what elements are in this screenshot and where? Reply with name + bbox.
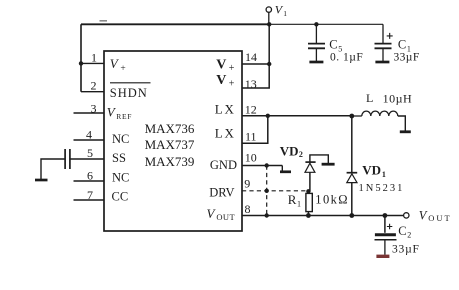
label V+ pin 1 bbox=[110, 56, 126, 74]
diode VD1 zener 1N5231 bbox=[347, 116, 358, 216]
wire pin 7 stub bbox=[74, 199, 105, 201]
ground for soft-start capacitor bbox=[35, 179, 48, 182]
wire pin 13 up to pin 14 bbox=[242, 64, 269, 88]
label NC pin 6 bbox=[112, 171, 129, 185]
svg-text:0. 1µF: 0. 1µF bbox=[330, 52, 363, 64]
svg-text:5: 5 bbox=[87, 146, 93, 160]
svg-text:VD: VD bbox=[362, 162, 381, 177]
svg-text:10: 10 bbox=[245, 150, 257, 164]
svg-text:1: 1 bbox=[297, 200, 301, 209]
svg-text:SS: SS bbox=[112, 151, 126, 165]
label GND pin 10 bbox=[210, 158, 237, 172]
label VOUT terminal bbox=[419, 209, 452, 224]
label R1 bbox=[288, 192, 301, 208]
svg-text:9: 9 bbox=[244, 176, 250, 190]
label VREF bbox=[107, 105, 132, 122]
wire pin 4 stub bbox=[74, 139, 105, 141]
wire pin 14 to V+ bus bbox=[242, 24, 271, 66]
svg-text:33µF: 33µF bbox=[392, 244, 420, 256]
ground for C2 bbox=[376, 255, 389, 258]
label pin 3 bbox=[91, 102, 97, 116]
label pin 13 bbox=[245, 77, 257, 91]
svg-text:11: 11 bbox=[245, 130, 257, 144]
wire pin 9 DRV dashed to R1 bbox=[242, 189, 311, 193]
wire pin 11 up to pin 12 bbox=[242, 116, 268, 144]
svg-text:1: 1 bbox=[283, 9, 287, 18]
svg-text:10kΩ: 10kΩ bbox=[315, 192, 349, 206]
label 1N5231 bbox=[359, 183, 405, 194]
svg-text:1: 1 bbox=[382, 170, 386, 179]
label C5 bbox=[329, 38, 342, 54]
label SS pin 5 bbox=[112, 151, 126, 165]
svg-text:NC: NC bbox=[112, 132, 129, 146]
op-amp U1 MAX736/737/739 IC body bbox=[104, 51, 242, 231]
svg-text:OUT: OUT bbox=[428, 213, 451, 223]
label pin 2 bbox=[91, 78, 97, 92]
wire pin 2 stub bbox=[81, 91, 104, 93]
svg-text:+: + bbox=[229, 63, 235, 74]
svg-text:6: 6 bbox=[87, 169, 93, 183]
label NC pin 4 bbox=[112, 132, 129, 146]
svg-text:8: 8 bbox=[245, 202, 251, 216]
svg-text:2: 2 bbox=[91, 78, 97, 92]
svg-text:10µH: 10µH bbox=[383, 92, 413, 106]
label 0.1uF bbox=[330, 52, 363, 64]
wire pin 12 LX to inductor node bbox=[242, 114, 354, 119]
svg-text:OUT: OUT bbox=[216, 212, 235, 222]
label pin 8 bbox=[245, 202, 251, 216]
wire top bus right segment bbox=[269, 23, 383, 25]
resistor R1 bbox=[306, 191, 312, 215]
svg-text:2: 2 bbox=[299, 150, 303, 159]
label C1 bbox=[398, 38, 411, 54]
label VOUT pin 8 bbox=[207, 206, 236, 222]
capacitor C4 soft-start on pin 5 bbox=[41, 149, 70, 179]
inductor L 10uH bbox=[352, 111, 406, 131]
svg-text:3: 3 bbox=[91, 102, 97, 116]
ground for C5 bbox=[309, 61, 323, 64]
svg-text:DRV: DRV bbox=[209, 186, 234, 200]
svg-text:NC: NC bbox=[112, 171, 129, 185]
wire pin 10 GND bbox=[242, 163, 282, 170]
label VD2 bbox=[280, 143, 303, 159]
ground for inductor bbox=[400, 130, 411, 133]
svg-text:MAX739: MAX739 bbox=[145, 154, 195, 169]
label C2 bbox=[398, 224, 411, 240]
label 33uF C2 bbox=[392, 244, 420, 256]
wire left vertical to pins 1,2 bbox=[80, 24, 82, 91]
label LX pin 12 bbox=[215, 102, 236, 117]
svg-text:V: V bbox=[216, 58, 226, 73]
wire pin 1 stub bbox=[79, 61, 104, 65]
svg-text:REF: REF bbox=[116, 112, 132, 121]
label 10uH bbox=[383, 92, 413, 106]
svg-text:1: 1 bbox=[91, 50, 97, 64]
svg-text:14: 14 bbox=[245, 50, 257, 64]
diode VD2 catch diode bbox=[305, 155, 328, 191]
svg-text:L: L bbox=[366, 91, 373, 105]
svg-text:2: 2 bbox=[407, 231, 411, 240]
svg-text:R: R bbox=[288, 192, 297, 207]
svg-text:+: + bbox=[120, 64, 125, 74]
label VD1 bbox=[362, 162, 386, 179]
svg-text:LX: LX bbox=[215, 126, 236, 141]
svg-text:CC: CC bbox=[112, 189, 129, 203]
label SHDN bbox=[110, 86, 148, 100]
capacitor C1 polarized bbox=[375, 24, 393, 61]
wire pin 5 stub bbox=[70, 158, 104, 160]
label MAX737 bbox=[145, 137, 195, 152]
capacitor C2 polarized output bbox=[375, 216, 397, 255]
svg-text:13: 13 bbox=[245, 77, 257, 91]
label pin 9 bbox=[244, 176, 250, 190]
wire SHDN overline bbox=[110, 82, 151, 84]
svg-text:MAX736: MAX736 bbox=[145, 121, 195, 136]
svg-text:C: C bbox=[398, 224, 406, 238]
label CC pin 7 bbox=[112, 189, 129, 203]
label pin 6 bbox=[87, 169, 93, 183]
svg-text:V: V bbox=[216, 73, 226, 88]
wire pin 3 stub bbox=[74, 112, 105, 114]
wire pin 8 VOUT output line bbox=[242, 213, 404, 218]
svg-text:SHDN: SHDN bbox=[110, 86, 148, 100]
label pin 5 bbox=[87, 146, 93, 160]
label pin 11 bbox=[245, 130, 257, 144]
label V+ pin 13 bbox=[216, 73, 235, 89]
svg-text:4: 4 bbox=[86, 128, 92, 142]
svg-text:VD: VD bbox=[280, 143, 299, 158]
node VOUT terminal bbox=[404, 213, 409, 218]
label L bbox=[366, 91, 373, 105]
svg-text:C: C bbox=[329, 38, 337, 52]
capacitor C5 bbox=[308, 22, 325, 61]
svg-text:1N5231: 1N5231 bbox=[359, 183, 405, 194]
svg-text:MAX737: MAX737 bbox=[145, 137, 195, 152]
label V+ pin 14 bbox=[216, 58, 235, 74]
label pin 14 bbox=[245, 50, 257, 64]
label pin 10 bbox=[245, 150, 257, 164]
svg-text:7: 7 bbox=[87, 188, 93, 202]
label pin 1 bbox=[91, 50, 97, 64]
label pin 7 bbox=[87, 188, 93, 202]
svg-text:33µF: 33µF bbox=[394, 52, 420, 64]
label pin 4 bbox=[86, 128, 92, 142]
wire top bus left segment bbox=[81, 23, 269, 25]
svg-text:V: V bbox=[419, 209, 428, 223]
svg-text:+: + bbox=[229, 78, 235, 89]
svg-text:LX: LX bbox=[215, 102, 236, 117]
ground symbol on GND pin bbox=[280, 170, 291, 173]
svg-text:GND: GND bbox=[210, 158, 237, 172]
label MAX736 bbox=[145, 121, 195, 136]
label LX pin 11 bbox=[215, 126, 236, 141]
label MAX739 bbox=[145, 154, 195, 169]
label DRV pin 9 bbox=[209, 186, 234, 200]
label V1 bbox=[275, 2, 288, 17]
svg-text:12: 12 bbox=[245, 103, 257, 117]
label 33uF C1 bbox=[394, 52, 420, 64]
wire dashed vertical link bbox=[265, 166, 269, 216]
scan mark above top wire bbox=[100, 20, 108, 22]
label pin 12 bbox=[245, 103, 257, 117]
label 10k ohm bbox=[315, 192, 349, 206]
wire pin 6 stub bbox=[74, 180, 105, 182]
node V1 terminal bbox=[266, 7, 271, 27]
ground for C1 bbox=[375, 61, 389, 64]
ground for VD2 bbox=[322, 163, 335, 166]
svg-text:C: C bbox=[398, 38, 406, 52]
